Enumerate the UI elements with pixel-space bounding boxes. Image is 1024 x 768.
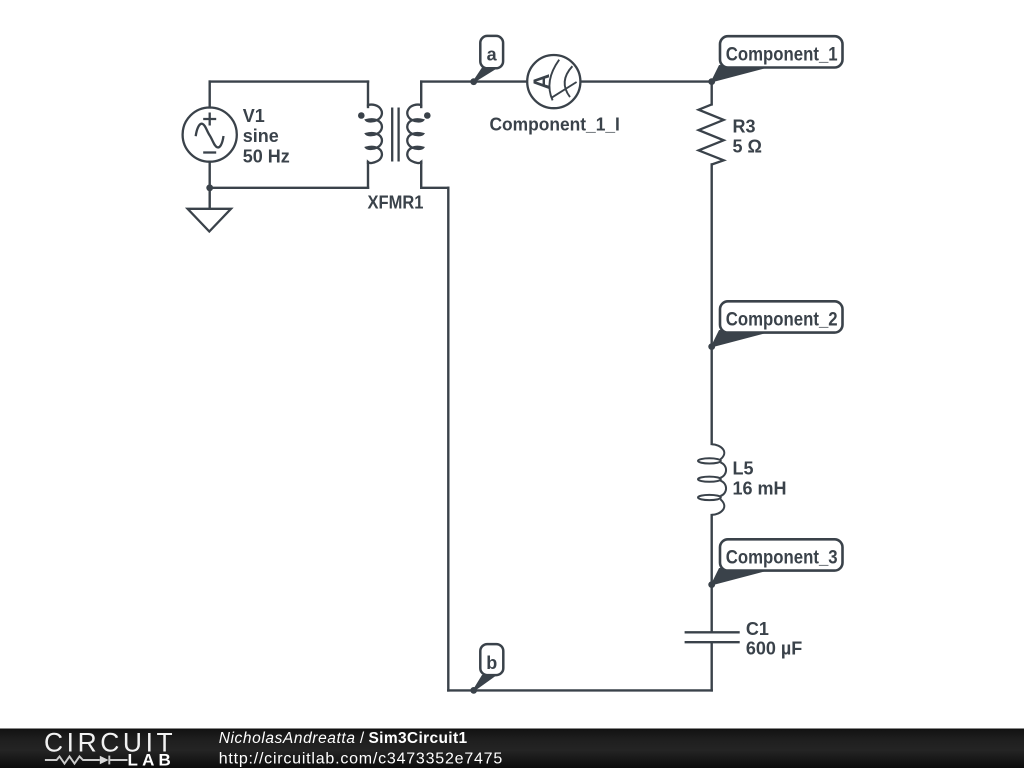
svg-text:Component_1: Component_1 — [726, 44, 838, 66]
logo diode triangle — [100, 756, 109, 765]
inductor L5 — [698, 444, 726, 515]
svg-text:NicholasAndreatta / Sim3Circui: NicholasAndreatta / Sim3Circuit1 — [219, 730, 468, 747]
transformer dot primary — [358, 112, 365, 119]
wire transformer primary bottom lead — [367, 162, 369, 188]
capacitor C1 — [685, 632, 740, 642]
ammeter Component_1_I — [527, 55, 580, 108]
wire top-left from V1 to transformer primary — [210, 80, 368, 82]
wire bottom horizontal — [448, 689, 711, 691]
svg-text:Component_1_I: Component_1_I — [490, 115, 620, 135]
wire top from transformer to ammeter — [421, 80, 527, 82]
ground — [188, 209, 231, 232]
svg-text:V1: V1 — [243, 106, 265, 126]
svg-text:XFMR1: XFMR1 — [368, 193, 424, 213]
node flag Component_3 — [708, 539, 842, 588]
svg-text:Component_3: Component_3 — [726, 547, 838, 569]
svg-text:sine: sine — [243, 126, 279, 146]
wire bottom-left from V1 to transformer primary — [210, 187, 368, 189]
svg-text:L5: L5 — [733, 458, 754, 478]
wire transformer primary top lead — [367, 82, 369, 107]
wire right rail C1 to bottom — [711, 642, 713, 690]
wire ground stub — [208, 188, 210, 209]
svg-text:50 Hz: 50 Hz — [243, 146, 290, 166]
svg-text:b: b — [486, 653, 497, 673]
wire V1 bottom stub — [208, 162, 210, 188]
svg-text:16 mH: 16 mH — [733, 479, 787, 499]
logo resistor-diode doodle — [45, 756, 128, 765]
svg-text:a: a — [487, 44, 498, 64]
node a flag — [470, 36, 503, 85]
wire transformer secondary bottom lead — [420, 162, 422, 188]
node flag Component_1 — [708, 36, 842, 85]
wire from ammeter to node Component_1 — [580, 80, 711, 82]
transformer XFMR1 — [366, 105, 423, 165]
wire V1 top stub — [208, 82, 210, 108]
svg-text:5 Ω: 5 Ω — [733, 137, 762, 157]
node b flag — [470, 644, 503, 694]
wire right rail L5 to C1 — [711, 515, 713, 632]
wire transformer secondary to left rail — [421, 187, 448, 189]
svg-text:LAB: LAB — [128, 751, 176, 768]
wire right rail R3 to L5 — [711, 165, 713, 444]
wire right rail R3 top stub — [711, 82, 713, 105]
svg-text:600 µF: 600 µF — [746, 639, 802, 659]
node dot at V1 bottom — [206, 184, 213, 191]
svg-text:Component_2: Component_2 — [726, 309, 838, 331]
svg-text:R3: R3 — [733, 117, 756, 137]
voltage source V1 — [183, 108, 237, 162]
transformer dot secondary — [424, 112, 431, 119]
svg-text:A: A — [529, 74, 554, 90]
svg-text:C1: C1 — [746, 619, 769, 639]
wire transformer secondary top lead — [420, 82, 422, 107]
wire left rail vertical — [447, 188, 449, 691]
svg-text:http://circuitlab.com/c3473352: http://circuitlab.com/c3473352e7475 — [219, 751, 503, 768]
resistor R3 — [699, 104, 724, 164]
node flag Component_2 — [708, 301, 842, 350]
